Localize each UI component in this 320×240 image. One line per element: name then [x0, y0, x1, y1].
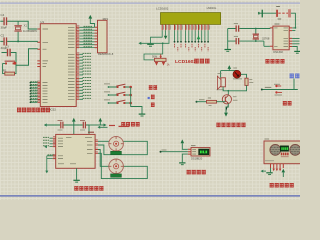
wire VEE to RV1 wiper [144, 43, 163, 60]
keys section title [121, 122, 139, 126]
motor M1 label [119, 125, 130, 127]
battery value label [278, 18, 282, 20]
LCD pin stubs RS RW E [175, 24, 182, 30]
svg-text:LCD1602: LCD1602 [156, 7, 169, 11]
U1 reference label [40, 20, 44, 24]
net dots RS RW E [174, 41, 182, 43]
red label below sensor pins [283, 101, 292, 105]
key K3 MINUS row [104, 100, 130, 104]
wire VEE down [141, 30, 169, 43]
U3 pin stubs left X1 X2 [270, 28, 273, 46]
U1 internal pin-name text right column [68, 27, 75, 99]
ultrasonic section title [270, 183, 294, 187]
alarm section title [216, 123, 245, 127]
transistor Q1 [222, 95, 231, 104]
LCD1 reference label [156, 7, 169, 11]
U3 value label DS1302 [273, 50, 283, 54]
electrolytic capacitor C3 [7, 49, 11, 57]
input net label texts [43, 137, 54, 155]
net dots D0-D7 [185, 41, 209, 43]
U1 port P2 pin stubs right [76, 54, 79, 75]
U5 reference label [265, 139, 275, 161]
U1 pin stubs XTAL1 XTAL2 RST left [37, 29, 40, 49]
wire button to R1 [3, 63, 16, 73]
U3 internal pin names [274, 28, 288, 47]
U2 input pin stubs left [53, 138, 56, 158]
common wire of keys to ground [131, 87, 142, 114]
blue net label text [290, 74, 300, 79]
ground symbol under U4 [179, 163, 185, 165]
resistor R3 [207, 100, 217, 103]
X1 reference label [24, 23, 28, 27]
wire VDD power [165, 30, 167, 36]
net labels on P0 wires [84, 26, 93, 46]
capacitor C9 driver supply [47, 120, 74, 130]
svg-text:30pF: 30pF [1, 26, 8, 30]
LCD value label LM016L [207, 6, 217, 10]
wire VCC node to speaker and LED [221, 71, 237, 78]
power arrow alarm VCC [228, 65, 232, 71]
U1 internal pin-name text left column [43, 29, 49, 102]
wire R3 to base [217, 101, 226, 103]
resistor R1 [5, 72, 15, 75]
capacitor C6 [228, 24, 270, 32]
speaker LS1 [217, 76, 225, 89]
U4 reference label [191, 145, 196, 147]
LCD LM016L screen [161, 13, 221, 25]
ground symbol under U5 [266, 173, 272, 175]
net labels on P3 wires [83, 78, 92, 99]
capacitor C4 label [1, 13, 5, 17]
terminal arrows under pins [273, 169, 282, 172]
ground symbol clock section [225, 50, 232, 52]
power arrow on D4 wire [197, 35, 201, 39]
open arrow SENB wire [45, 171, 48, 174]
key K2 PLUS row [104, 92, 130, 96]
pin number texts P1 left [37, 81, 40, 101]
junction dot VCC2 net [295, 27, 297, 29]
wire U3 GND pin down [292, 47, 297, 51]
R2 labels [249, 80, 253, 83]
P1 wire end dots [30, 82, 32, 103]
RP1 reference label [103, 17, 109, 21]
RV1 50% label [152, 55, 158, 59]
wire VSS to ground [151, 30, 163, 44]
open wire right arrow driver supply [89, 118, 107, 127]
sheet border bottom line [0, 195, 300, 197]
junction dot reset node [14, 62, 17, 65]
blue junction marker [148, 97, 150, 99]
battery B1 label [276, 6, 280, 8]
U2 SENB join wire [46, 156, 48, 171]
wires P2 net stubs [79, 54, 83, 75]
power arrow driver VCC [72, 118, 76, 135]
temperature net wire with reading [261, 87, 298, 90]
ground symbol under U2 [73, 180, 79, 182]
junction dot key2 [129, 94, 132, 97]
IN4 open arrow [44, 145, 47, 148]
key label SET [149, 85, 157, 89]
resistor R1 label [3, 68, 7, 72]
net label and wire to R3 [196, 100, 207, 103]
battery B1 [276, 9, 291, 17]
junction dot key1 [129, 86, 132, 89]
net label texts RS RW E red [175, 44, 182, 51]
motor M1 green terminal block [111, 151, 122, 154]
potentiometer RV1 [155, 54, 167, 61]
key label PLUS [151, 95, 155, 99]
junction dot VEE wire [162, 42, 164, 44]
capacitor C2 30pF [1, 37, 8, 50]
wire crystal top to XTAL1 net [17, 21, 19, 25]
open wire arrow VEE left [138, 42, 141, 45]
pin number texts P3 right [77, 77, 80, 98]
ultrasonic module U5 body [264, 141, 302, 164]
net labels on P1 wires [30, 82, 38, 102]
sheet border top line [0, 3, 300, 4]
MCU U1 STC89C52 body [40, 24, 76, 107]
MCU section title 单片机最小系统 [17, 108, 50, 113]
motor M1 [109, 136, 124, 151]
crystal X2 [253, 28, 259, 42]
wire OUT4 to motor2 right [98, 153, 147, 178]
wires P0 bus to RP1 [79, 27, 94, 47]
wire pin1 to ground [270, 168, 272, 172]
left arrow terminal under U5 [261, 170, 266, 173]
open wire arrow left of driver caps [44, 123, 47, 126]
schematic sheet background grid [0, 0, 300, 200]
U5 tiny text under pads [281, 156, 289, 158]
wire C3 into reset node [2, 49, 38, 66]
RP1 pin stubs [95, 27, 98, 47]
ground arrow below Q1 [224, 113, 228, 117]
capacitor C10 driver supply [74, 120, 89, 134]
RV1 value 1k [167, 62, 171, 66]
RV1 terminal arrows to ground [155, 62, 165, 66]
sensor terminal pin lower [275, 91, 283, 95]
svg-text:LCD1602: LCD1602 [175, 59, 196, 65]
svg-text:C3: C3 [5, 45, 9, 49]
LCD pin names VSS VDD VEE [163, 25, 170, 29]
LS1 labels [217, 73, 225, 89]
net labels on P2 wires [83, 53, 92, 74]
key K1 SET row [104, 84, 130, 88]
temperature module title [187, 170, 206, 174]
wires U3 right nets SCLK IO RST [292, 31, 299, 44]
capacitor C2 label [1, 33, 5, 37]
U2 internal pin names [58, 137, 93, 164]
wire OUT1 to motor1 left [98, 140, 109, 142]
U5 display window [280, 146, 288, 152]
U1 port P0 pin stubs right [76, 27, 79, 47]
wire C4 to XTAL1 [0, 21, 37, 29]
input net wires and labels [47, 138, 53, 158]
wire R2 and speaker to collector [223, 85, 246, 95]
svg-text:C4: C4 [1, 13, 5, 17]
wire battery left to terminal bar [259, 10, 276, 18]
LCD pin names RS RW E [176, 25, 183, 29]
U4 display window [199, 149, 209, 155]
U5 left transducer [270, 145, 281, 156]
LCD section title LCD1602xx [175, 59, 210, 65]
key label MINUS [151, 103, 155, 107]
wire C2 to XTAL2 [0, 40, 37, 43]
wires D0-D7 down [186, 30, 209, 41]
motor driver U2 body [56, 134, 95, 168]
stray net wire with arrow left of keys title [98, 126, 116, 129]
U1 port P1 pin stubs left [37, 83, 40, 103]
U5 bottom pin stubs [271, 164, 284, 169]
D4 reference label [233, 68, 242, 79]
U4 value label DS18B20 [191, 156, 203, 160]
U2 output pin stubs right [95, 141, 98, 153]
ground symbol under VSS [147, 44, 154, 46]
power arrow to U4 VCC [181, 139, 188, 149]
power arrow under U5 [282, 169, 286, 177]
R3 labels [208, 98, 212, 106]
U1 value label STC89C52 [41, 107, 56, 111]
crystal X1 [14, 25, 21, 31]
svg-text:RP1: RP1 [103, 17, 109, 21]
RP1 value label RESPACK-8 [98, 52, 114, 56]
pin number texts P0 right [77, 26, 80, 46]
emitter wire to ground arrow [226, 103, 228, 112]
wire U4 DQ with net label [160, 150, 188, 153]
ground rail left of caps [227, 29, 229, 50]
U1 pin stubs PSEN ALE EA [37, 61, 40, 67]
U1 port P3 pin stubs right [76, 78, 79, 99]
power VCC arrow above RP1 [88, 15, 94, 27]
X1 value 11.0592MHz [23, 29, 38, 33]
U2 reference label [88, 131, 94, 133]
vertical wire to blue label [293, 79, 295, 90]
pin number texts P2 right [77, 53, 80, 74]
LCD pin stubs VSS VDD VEE [162, 24, 169, 30]
driver section title bottom [74, 186, 103, 190]
svg-text:U1: U1 [40, 20, 44, 24]
junction dot key3 [129, 102, 132, 105]
power arrow VDD [164, 36, 168, 39]
U5 pin pads [281, 153, 289, 156]
U2 ground wire [76, 168, 78, 180]
motor M2 [109, 159, 124, 174]
X2 value label 32768 [262, 36, 270, 40]
sensor terminal pin upper [274, 84, 281, 87]
LCD pin names D0-D7 [187, 25, 210, 29]
wires P3 net stubs [79, 78, 83, 99]
clock chip U3 DS1302 body [273, 26, 289, 50]
clock section title [265, 59, 284, 63]
wire OUT2 to motor1 right [98, 141, 147, 154]
resistor R2 [245, 78, 248, 85]
capacitor C3 label [5, 45, 9, 49]
U4 pin stubs left [188, 149, 191, 154]
U4 internal pin names VCC DQ GND [192, 149, 196, 154]
DS18B20 U4 body [191, 148, 210, 157]
capacitor C4 30pF [1, 17, 8, 29]
capacitor C7b [228, 36, 270, 46]
pin number texts U2 [53, 137, 98, 157]
junction dot collector node [227, 90, 229, 92]
LCD pin stubs D0-D7 [186, 24, 209, 30]
ground symbol under keys [139, 114, 146, 116]
wire U4 GND [182, 154, 188, 162]
wire crystal bottom to XTAL2 net [17, 32, 19, 42]
ground symbol right of U3 [294, 51, 300, 53]
net label texts D0-D7 red [186, 44, 209, 51]
LED D4 [233, 70, 241, 78]
wires RS RW E down [175, 30, 182, 41]
svg-text:C2: C2 [1, 33, 5, 37]
wires P1 net stubs left [31, 83, 38, 103]
motor M2 green terminal block [111, 174, 122, 177]
reset button K [5, 61, 15, 65]
wire LED to R2 [241, 74, 247, 78]
Q1 labels [233, 97, 238, 100]
resistor pack RP1 [98, 20, 108, 53]
wire OUT3 to motor2 left [98, 150, 109, 167]
junction dot crystal bottom [17, 40, 19, 42]
U3 pin stubs right [289, 28, 292, 47]
U5 right transducer [290, 145, 301, 156]
wire battery right down to VCC1 [291, 13, 296, 28]
U3 reference label [274, 23, 279, 25]
